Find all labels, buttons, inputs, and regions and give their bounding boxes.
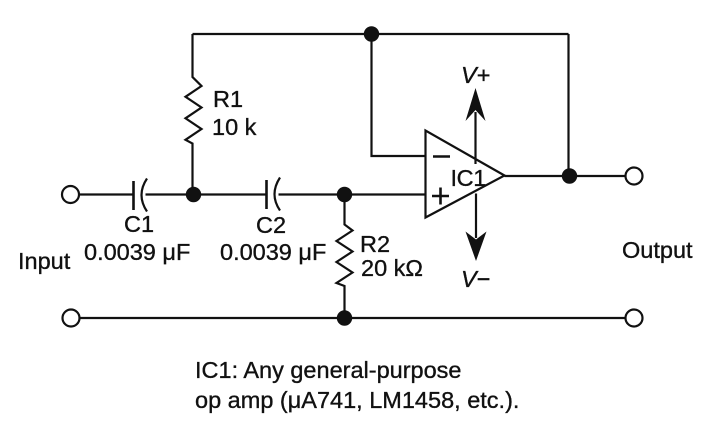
wire: node B to non-inverting input [345,193,427,195]
node B junction [337,187,352,202]
svg-text:0.0039 μF: 0.0039 μF [84,239,190,265]
wire: node A to C2 [194,193,267,195]
wire: input to C1 [79,193,133,195]
input terminal [62,186,79,203]
svg-text:0.0039 μF: 0.0039 μF [220,239,326,265]
node: output junction [562,168,577,183]
V- supply arrow [466,194,487,262]
capacitor C2 [267,178,281,211]
wire: C1 to node A [146,193,194,195]
wire: C2 to node B [279,193,345,195]
output terminal [626,168,643,185]
svg-text:op amp (μA741, LM1458, etc.).: op amp (μA741, LM1458, etc.). [195,387,519,413]
svg-text:Output: Output [622,237,693,263]
svg-text:IC1: Any general-purpose: IC1: Any general-purpose [195,357,462,383]
svg-text:V−: V− [461,266,490,292]
wire: bottom ground bus [80,317,626,319]
wire: feedback drop to inverting input [372,34,427,156]
svg-text:Input: Input [18,248,71,274]
ground terminal left [63,310,80,327]
svg-text:R1: R1 [213,86,243,112]
ground terminal right [626,310,643,327]
svg-text:C2: C2 [256,212,286,238]
node: feedback junction [364,26,379,41]
V+ supply arrow [466,88,486,164]
wire: op-amp output to output terminal [505,175,626,177]
node: ground junction [337,310,352,325]
svg-text:10 k: 10 k [212,114,257,140]
node A junction [186,187,201,202]
svg-text:IC1: IC1 [451,165,486,191]
resistor R1 [186,34,202,195]
svg-text:R2: R2 [360,231,390,257]
wire: feedback vertical to output node [567,34,569,176]
op-amp IC1 [426,131,505,218]
svg-text:20 kΩ: 20 kΩ [361,255,423,281]
resistor R2 [337,195,353,319]
capacitor C1 [134,179,148,212]
svg-text:C1: C1 [124,211,154,237]
wire: top feedback bus [193,33,569,35]
svg-text:V+: V+ [461,62,490,88]
